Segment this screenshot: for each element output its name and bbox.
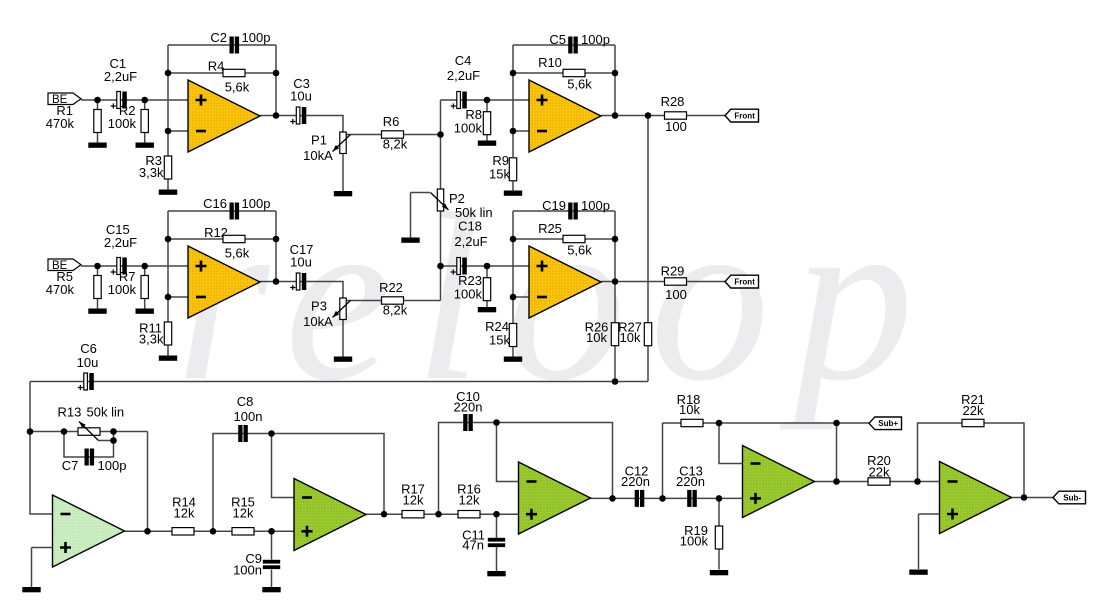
- svg-text:100: 100: [665, 287, 687, 302]
- svg-text:5,6k: 5,6k: [567, 243, 592, 258]
- svg-text:R29: R29: [661, 264, 685, 279]
- svg-text:10k: 10k: [586, 330, 607, 345]
- svg-text:100p: 100p: [98, 458, 127, 473]
- svg-text:P2: P2: [449, 191, 465, 206]
- svg-text:12k: 12k: [459, 492, 480, 507]
- svg-text:10kA: 10kA: [303, 314, 333, 329]
- svg-text:10k: 10k: [679, 402, 700, 417]
- svg-text:100n: 100n: [233, 563, 262, 578]
- svg-text:10u: 10u: [77, 355, 99, 370]
- svg-text:100: 100: [665, 119, 687, 134]
- svg-text:100k: 100k: [108, 282, 137, 297]
- svg-text:2,2uF: 2,2uF: [454, 234, 487, 249]
- svg-text:100p: 100p: [242, 196, 271, 211]
- svg-text:470k: 470k: [46, 282, 75, 297]
- svg-text:47n: 47n: [462, 538, 484, 553]
- svg-text:Front: Front: [734, 112, 755, 121]
- svg-text:BE: BE: [52, 260, 68, 272]
- svg-text:Front: Front: [734, 278, 755, 287]
- svg-text:C4: C4: [455, 53, 472, 68]
- svg-text:5,6k: 5,6k: [225, 80, 250, 95]
- svg-text:C6: C6: [80, 341, 97, 356]
- svg-text:R22: R22: [379, 280, 403, 295]
- svg-text:2,2uF: 2,2uF: [104, 69, 137, 84]
- svg-text:R13: R13: [58, 405, 82, 420]
- svg-text:5,6k: 5,6k: [567, 77, 592, 92]
- svg-text:100k: 100k: [680, 534, 709, 549]
- svg-text:Sub+: Sub+: [878, 419, 898, 428]
- svg-text:12k: 12k: [174, 505, 195, 520]
- svg-text:R4: R4: [208, 59, 225, 74]
- svg-text:100k: 100k: [108, 116, 137, 131]
- svg-text:100p: 100p: [581, 198, 610, 213]
- svg-text:BE: BE: [52, 94, 68, 106]
- svg-text:Sub-: Sub-: [1063, 493, 1081, 502]
- svg-text:2,2uF: 2,2uF: [447, 68, 480, 83]
- svg-text:12k: 12k: [403, 492, 424, 507]
- svg-text:50k lin: 50k lin: [87, 405, 125, 420]
- svg-text:220n: 220n: [621, 474, 650, 489]
- svg-text:10u: 10u: [290, 255, 312, 270]
- svg-text:220n: 220n: [676, 474, 705, 489]
- svg-text:10k: 10k: [620, 330, 641, 345]
- svg-text:100k: 100k: [454, 121, 483, 136]
- svg-text:15k: 15k: [489, 333, 510, 348]
- svg-text:5,6k: 5,6k: [225, 246, 250, 261]
- svg-text:R6: R6: [383, 114, 400, 129]
- svg-text:15k: 15k: [489, 167, 510, 182]
- svg-text:C7: C7: [62, 458, 79, 473]
- svg-text:C2: C2: [210, 30, 227, 45]
- svg-text:100p: 100p: [581, 32, 610, 47]
- svg-text:3,3k: 3,3k: [139, 165, 164, 180]
- svg-text:P3: P3: [311, 299, 327, 314]
- svg-text:C19: C19: [542, 198, 566, 213]
- svg-text:100p: 100p: [242, 30, 271, 45]
- svg-text:100n: 100n: [234, 409, 263, 424]
- svg-text:3,3k: 3,3k: [139, 332, 164, 347]
- svg-text:100k: 100k: [454, 287, 483, 302]
- svg-text:2,2uF: 2,2uF: [104, 235, 137, 250]
- svg-text:22k: 22k: [963, 403, 984, 418]
- svg-text:12k: 12k: [233, 505, 254, 520]
- svg-text:C16: C16: [203, 196, 227, 211]
- svg-text:470k: 470k: [46, 116, 75, 131]
- svg-text:P1: P1: [311, 133, 327, 148]
- svg-text:R25: R25: [538, 221, 562, 236]
- svg-text:C8: C8: [237, 394, 254, 409]
- svg-text:C18: C18: [458, 219, 482, 234]
- svg-text:10kA: 10kA: [303, 148, 333, 163]
- svg-text:R10: R10: [538, 55, 562, 70]
- svg-text:C5: C5: [549, 32, 566, 47]
- svg-text:R28: R28: [661, 94, 685, 109]
- svg-text:10u: 10u: [290, 89, 312, 104]
- svg-text:220n: 220n: [454, 400, 483, 415]
